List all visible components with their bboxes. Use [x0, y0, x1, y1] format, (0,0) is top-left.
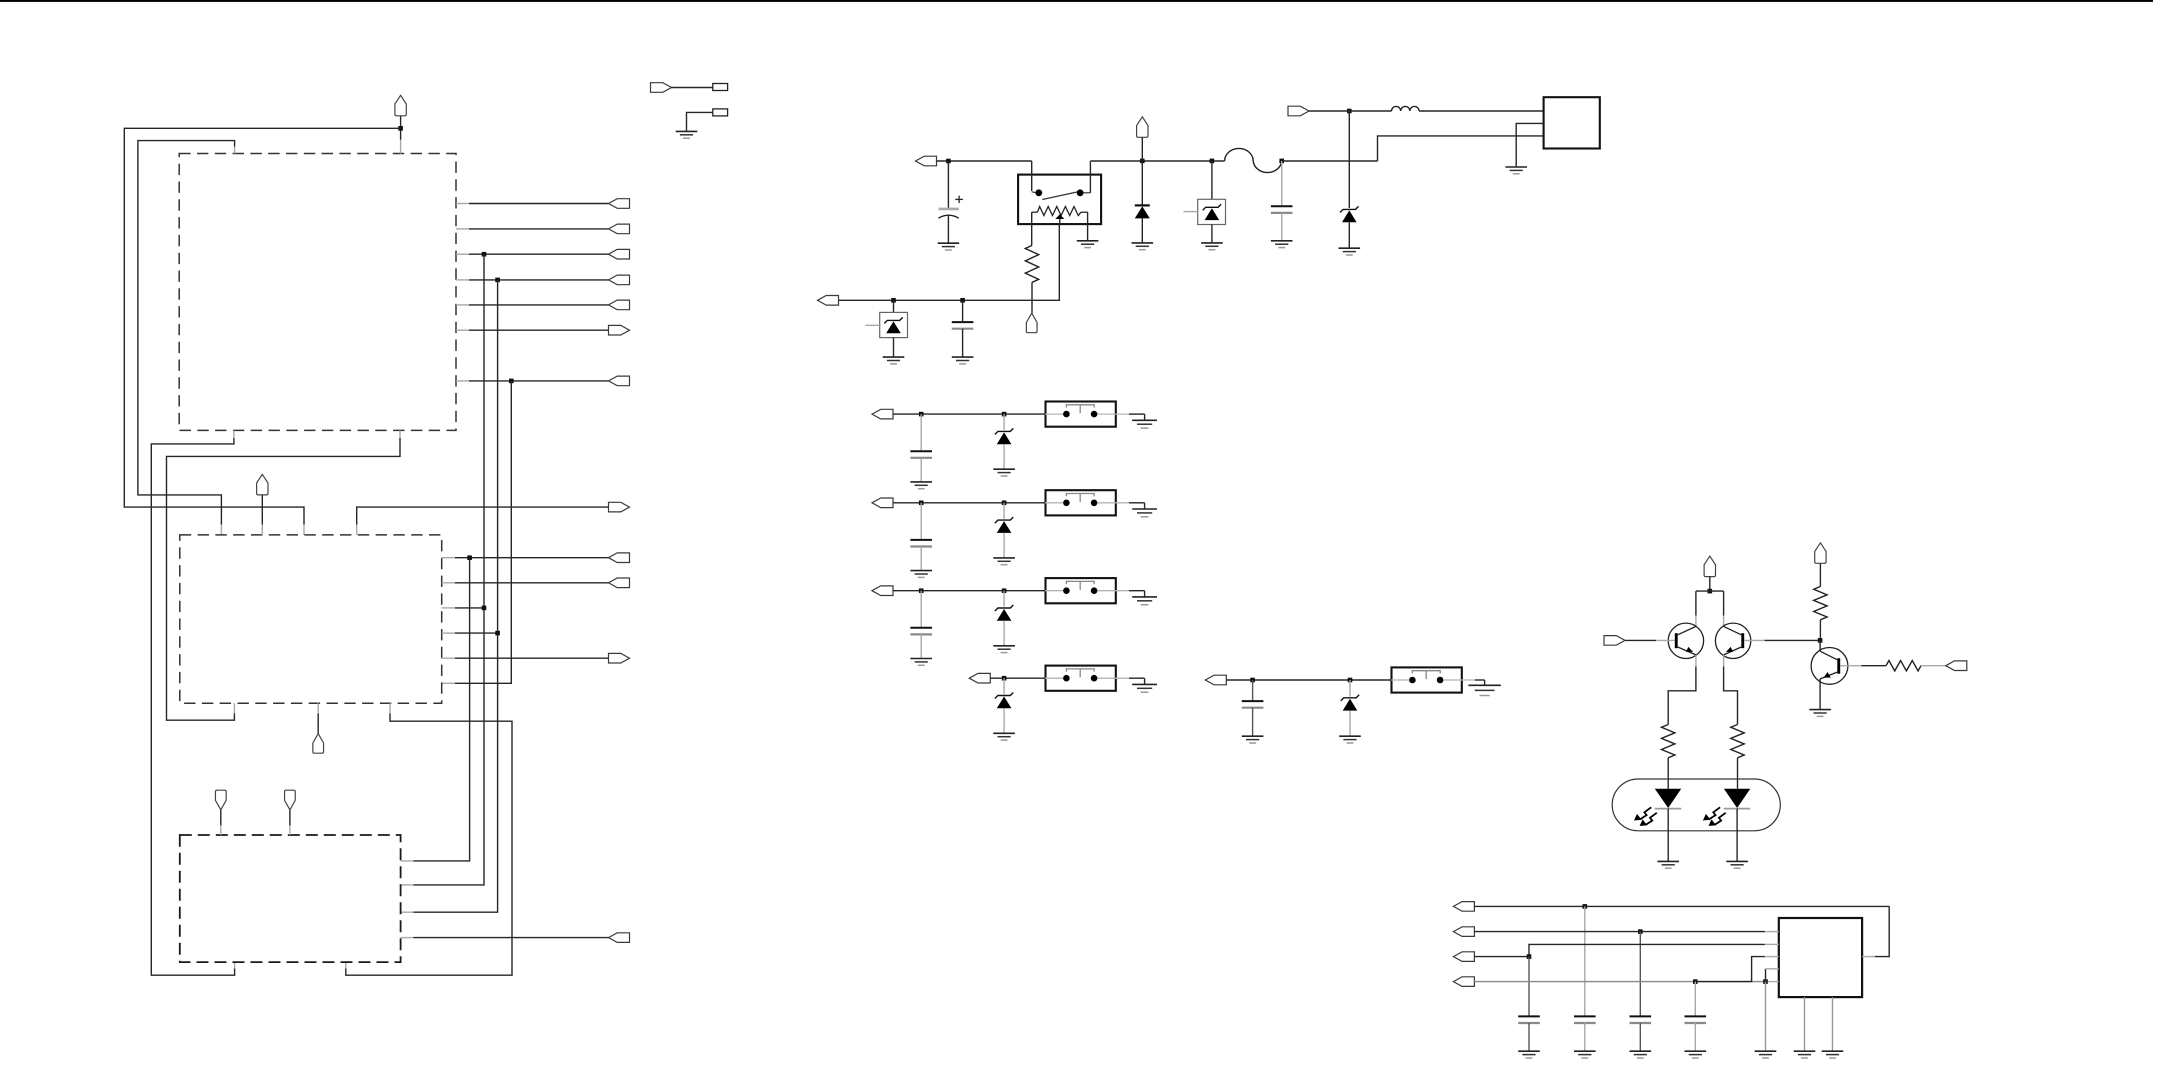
- connector net507: [609, 502, 630, 512]
- ground C-BR4: [1685, 1051, 1707, 1058]
- junction Z3: [1347, 109, 1352, 114]
- junction Q3 collector: [1818, 638, 1823, 643]
- connector U3 row4: [609, 933, 630, 943]
- wire BR3: [1474, 944, 1778, 956]
- connector SW1: [872, 409, 893, 419]
- zener Z3: [1340, 111, 1358, 248]
- junction SW5 zener: [1348, 678, 1353, 683]
- connector BR3: [1453, 952, 1474, 962]
- junction Z-adj: [891, 298, 896, 303]
- wire L1 to J1: [1419, 110, 1544, 112]
- wire main to J1: [1378, 136, 1544, 161]
- ground C-BR3: [1518, 1051, 1540, 1058]
- switch SW1: [1045, 402, 1129, 427]
- wire U1 pin5: [456, 304, 609, 306]
- capacitor C-pol: [938, 161, 963, 243]
- wire SW1: [893, 413, 1046, 415]
- wire R-base to connector: [1921, 665, 1946, 667]
- diode D1: [1135, 161, 1150, 243]
- zener SW4: [995, 678, 1013, 733]
- connector PWR-IN: [916, 156, 937, 166]
- power flag VT2: [1815, 543, 1826, 587]
- legend wire: [672, 87, 713, 89]
- connector SW5: [1205, 675, 1226, 685]
- connector U1 pin1: [609, 199, 630, 209]
- ground SW4 zener: [993, 733, 1015, 740]
- LED D-L1 light arrows: [1634, 807, 1657, 826]
- connector U2 row5: [609, 653, 630, 663]
- wire Q1 base: [1625, 639, 1675, 641]
- wire SW1 gnd: [1129, 414, 1145, 420]
- junction D1: [1140, 159, 1145, 164]
- capacitor C-BR1: [1574, 906, 1596, 1051]
- ground SW3: [1132, 597, 1157, 605]
- wire R-pot to flag: [1031, 282, 1033, 313]
- wire Q2 emitter: [1724, 655, 1738, 725]
- wire collector rail: [1696, 591, 1724, 626]
- relay RL1 contact dots: [1035, 189, 1083, 196]
- wire SW2 gnd: [1129, 503, 1145, 509]
- ground C-pol: [938, 243, 960, 250]
- wire busD pin7 to U2: [442, 381, 512, 683]
- relay RL1 box: [1018, 175, 1101, 225]
- junction U1 pin7: [509, 379, 514, 384]
- junction U2 row1: [467, 555, 472, 560]
- junction F1 right: [1279, 159, 1284, 164]
- relay RL1 lever: [1042, 192, 1077, 200]
- connector U2 row2: [609, 578, 630, 588]
- connector U1 pin3: [609, 249, 630, 259]
- junction Z2: [1210, 159, 1215, 164]
- wire J2 gnd pin1: [1804, 997, 1806, 1051]
- capacitor C-fuse: [1271, 161, 1293, 241]
- ground Z2: [1201, 243, 1223, 250]
- switch SW2: [1045, 490, 1129, 515]
- ground J2 pin1: [1794, 1051, 1816, 1058]
- junction SW2 cap: [919, 501, 924, 506]
- wire U2 row3: [442, 607, 484, 609]
- connector U1 pin7: [609, 376, 630, 386]
- capacitor SW2: [910, 503, 932, 571]
- wire SW5: [1226, 679, 1391, 681]
- junction BR4b: [1763, 979, 1768, 984]
- legend ground: [676, 131, 698, 138]
- capacitor C-BR2: [1630, 932, 1652, 1052]
- wire bus3 U1 to U3: [151, 430, 234, 975]
- junction C-adj: [960, 298, 965, 303]
- flag U2 bottom: [313, 703, 324, 753]
- module U1 (dashed block): [179, 154, 456, 431]
- ground Q3: [1809, 710, 1831, 717]
- capacitor C-BR4: [1685, 982, 1707, 1052]
- wire BR4 to pinC: [1695, 957, 1779, 982]
- ground BR4: [1755, 1051, 1777, 1058]
- wire SW3 gnd: [1129, 591, 1145, 597]
- resistor R-pot: [1025, 245, 1038, 282]
- wire Q2 base: [1744, 639, 1820, 641]
- junction BR4a: [1693, 979, 1698, 984]
- relay RL1 right pin top: [1084, 161, 1091, 193]
- ground SW2 zener: [993, 558, 1015, 565]
- top border bar: [0, 0, 2153, 2]
- wire Q3 base: [1840, 665, 1886, 667]
- wire busA U2 to U3: [401, 558, 470, 861]
- ground C-BR1: [1574, 1051, 1596, 1058]
- ground Z3: [1339, 248, 1361, 255]
- TVS Z-adj box: [865, 300, 907, 357]
- ground SW5 cap: [1242, 736, 1264, 743]
- wire U2 row1: [442, 557, 609, 559]
- wire Q1 emitter: [1668, 655, 1696, 725]
- wire U2 top to connector: [357, 507, 609, 535]
- wire J1 gnd pin: [1516, 123, 1543, 167]
- wire U1 pin3: [456, 253, 609, 255]
- wire bus1 VCC1 to U2: [124, 128, 400, 535]
- LED D-L2: [1724, 789, 1750, 862]
- wire SW4: [990, 677, 1045, 679]
- connector Q3 base: [1946, 661, 1967, 671]
- resistor R-Q2: [1731, 725, 1744, 758]
- wire BR2: [1474, 931, 1778, 933]
- potentiometer wiper: [1055, 214, 1064, 224]
- wire SW5 gnd: [1475, 680, 1485, 685]
- wire main line right: [1090, 160, 1377, 162]
- potentiometer track: [1032, 207, 1088, 216]
- wire BR4 gray: [1474, 981, 1778, 983]
- junction U1 pin4: [495, 278, 500, 283]
- module U2 (dashed block): [180, 535, 442, 703]
- zener SW1: [995, 414, 1013, 469]
- LED D-L1: [1655, 789, 1681, 862]
- connector J1 box: [1544, 97, 1600, 148]
- ground RL1: [1077, 241, 1099, 248]
- ground J2 pin2: [1822, 1051, 1844, 1058]
- flag U3 top B: [285, 790, 296, 835]
- capacitor SW1: [910, 414, 932, 482]
- connector SW2: [872, 498, 893, 508]
- wire R-pullup to node: [1819, 620, 1821, 641]
- capacitor SW3: [910, 591, 932, 659]
- relay RL1 left pin lower: [1031, 212, 1033, 245]
- wire bus2 U1 to U2: [138, 141, 235, 535]
- junction VT1: [1708, 589, 1713, 594]
- ground C-BR2: [1630, 1051, 1652, 1058]
- capacitor SW5: [1242, 680, 1264, 736]
- wire SW4 gnd: [1129, 678, 1145, 684]
- switch SW3: [1045, 578, 1129, 603]
- junction U1 pin3: [482, 252, 487, 257]
- connector J2 box: [1779, 918, 1862, 997]
- wire U2 row2: [442, 582, 609, 584]
- junction U2 row3: [482, 606, 487, 611]
- connector U1 pin4: [609, 275, 630, 285]
- junction C-pol: [946, 159, 951, 164]
- ground SW1 cap: [910, 482, 932, 489]
- connector U1 pin2: [609, 224, 630, 234]
- connector ADJ: [818, 296, 839, 306]
- zener SW2: [995, 503, 1013, 558]
- wire R-Q1 to LED1: [1667, 758, 1669, 789]
- power flag VT1: [1704, 556, 1715, 591]
- junction BR1: [1583, 904, 1588, 909]
- optocoupler body: [1612, 779, 1780, 831]
- wire U2 row4: [442, 632, 498, 634]
- wire main line left: [937, 160, 1032, 162]
- wire bus4 U1 to U2: [167, 430, 401, 720]
- power flag VCC2: [257, 474, 268, 535]
- zener SW5: [1341, 680, 1359, 736]
- connector SW3: [872, 586, 893, 596]
- connector U1 pin5: [609, 300, 630, 310]
- capacitor C-adj: [952, 300, 974, 357]
- ground SW5: [1468, 685, 1500, 695]
- junction SW4 zener: [1002, 676, 1007, 681]
- resistor R-Q1: [1662, 725, 1675, 758]
- wire wiper net: [838, 224, 1059, 300]
- ground J1: [1505, 167, 1527, 174]
- legend gnd wire: [687, 112, 713, 131]
- junction SW2 zener: [1002, 501, 1007, 506]
- ground SW1: [1132, 420, 1157, 428]
- power flag VBUS: [1137, 117, 1148, 161]
- junction SW3 cap: [919, 588, 924, 593]
- junction SW3 zener: [1002, 588, 1007, 593]
- flag net-pot: [1026, 313, 1037, 333]
- connector Q1 base: [1604, 636, 1625, 646]
- ground C-adj: [952, 357, 974, 364]
- wire BR1: [1474, 906, 1889, 956]
- connector U1 pin6: [609, 325, 630, 335]
- wire Q3 emitter: [1819, 679, 1821, 710]
- ground SW3 cap: [910, 659, 932, 666]
- wire U2 row5: [442, 657, 609, 659]
- ground LED2: [1726, 861, 1748, 868]
- power flag VCC1: [395, 95, 406, 153]
- wire U1 pin7: [456, 380, 609, 382]
- wire U2 to U3 bottom: [346, 703, 512, 975]
- ground SW4: [1132, 684, 1157, 692]
- ground D1: [1132, 243, 1154, 250]
- inductor L1: [1392, 106, 1420, 111]
- wire BR4 gnd stem: [1765, 982, 1767, 1052]
- wire U1 pin4: [456, 279, 609, 281]
- ground SW2 cap: [910, 571, 932, 578]
- transistor Q3: [1811, 648, 1848, 685]
- switch SW5: [1391, 667, 1475, 692]
- junction BR2: [1638, 929, 1643, 934]
- resistor R-pullup: [1814, 587, 1827, 620]
- wire R-Q2 to LED2: [1737, 758, 1739, 789]
- junction SW5 cap: [1250, 678, 1255, 683]
- ground LED1: [1657, 861, 1679, 868]
- wire U1 pin1: [456, 203, 609, 205]
- wire SW3: [893, 590, 1046, 592]
- module U3 (dashed block): [180, 835, 401, 962]
- switch SW4: [1045, 666, 1129, 691]
- connector U2 row1: [609, 553, 630, 563]
- junction SW1 cap: [919, 412, 924, 417]
- capacitor C-BR3: [1518, 957, 1540, 1052]
- wire Q3 collector: [1819, 640, 1821, 651]
- ground SW3 zener: [993, 646, 1015, 653]
- connector SW4: [969, 673, 990, 683]
- wire U3 row4: [401, 937, 609, 939]
- TVS Z2 box: [1184, 161, 1226, 243]
- LED D-L2 light arrows: [1703, 807, 1726, 826]
- ground Z-adj: [883, 357, 905, 364]
- connector VIN: [1288, 106, 1309, 116]
- wire U1 pin6: [456, 329, 609, 331]
- ground SW1 zener: [993, 469, 1015, 476]
- connector BR1: [1453, 902, 1474, 912]
- fuse F1: [1225, 148, 1282, 172]
- wire J2 gnd pin2: [1832, 997, 1834, 1051]
- connector BR4: [1453, 977, 1474, 987]
- wire U1 pin2: [456, 228, 609, 230]
- transistor Q1: [1668, 623, 1703, 658]
- legend label box 2: [713, 109, 728, 116]
- ground C-fuse: [1271, 241, 1293, 248]
- legend connector: [651, 83, 672, 93]
- transistor Q2: [1715, 623, 1750, 658]
- relay RL1 right pin lower: [1087, 212, 1089, 241]
- zener SW3: [995, 591, 1013, 646]
- wire busB pin3 to U3: [401, 254, 484, 885]
- resistor R-base: [1886, 661, 1921, 671]
- connector BR2: [1453, 927, 1474, 937]
- wire busC pin4 to U3: [401, 280, 498, 912]
- wire VIN: [1309, 110, 1392, 112]
- ground SW5 zener: [1339, 736, 1361, 743]
- ground SW2: [1132, 509, 1157, 517]
- flag U3 top A: [215, 790, 226, 835]
- wire BR4 to pinD: [1766, 969, 1779, 982]
- wire SW2: [893, 502, 1046, 504]
- junction BR3: [1527, 954, 1532, 959]
- junction SW1 zener: [1002, 412, 1007, 417]
- relay RL1 left pin: [1032, 161, 1037, 193]
- junction U2 row4: [495, 631, 500, 636]
- junction VCC1: [398, 126, 403, 131]
- legend label box 1: [713, 84, 728, 91]
